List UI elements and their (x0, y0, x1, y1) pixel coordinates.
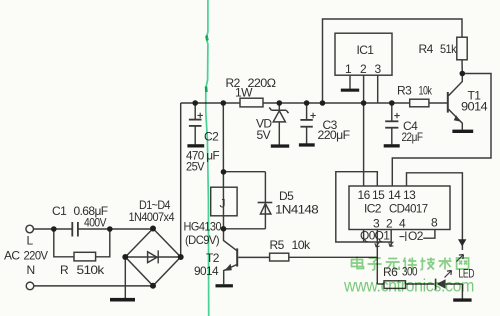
svg-text:3: 3 (375, 62, 382, 76)
svg-text:5V: 5V (257, 128, 271, 142)
svg-text:R3: R3 (397, 84, 412, 98)
svg-text:R5: R5 (270, 238, 285, 252)
IC2 pin4 stub (390, 230, 392, 247)
svg-text:Q0: Q0 (360, 229, 376, 243)
ground bridge (110, 298, 135, 302)
junction bridge top vertex (150, 226, 156, 232)
capacitor C1 (72, 222, 78, 237)
svg-text:1N4007x4: 1N4007x4 (129, 210, 175, 224)
svg-text:13: 13 (403, 188, 416, 202)
svg-text:9014: 9014 (461, 100, 488, 114)
svg-text:HG4130: HG4130 (184, 220, 222, 234)
wire J bottom to D5 (224, 228, 266, 230)
junction relay J top (221, 169, 227, 175)
ground VD (271, 144, 289, 147)
terminal L (26, 225, 34, 233)
wire R left leg (54, 229, 74, 257)
svg-text:1N4148: 1N4148 (275, 203, 319, 217)
capacitor C4 (391, 103, 393, 121)
ground C2 (187, 144, 204, 147)
svg-text:220V: 220V (24, 249, 49, 263)
ground IC1 pin1 (341, 89, 359, 92)
bridge rectifier D1~D4 diamond (125, 229, 180, 286)
junction rail C2 (192, 100, 198, 106)
junction rail C3 (304, 100, 310, 106)
junction bridge left vertex (122, 254, 128, 260)
bridge inner diode (148, 252, 157, 263)
svg-text:15: 15 (372, 188, 385, 202)
IC2 pin13 wire to LED (407, 173, 463, 250)
wire J top to D5 (224, 171, 266, 173)
LED wire down to ground (461, 284, 463, 299)
O2 tick marks (400, 232, 406, 242)
svg-text:J: J (220, 197, 226, 211)
junction C1 left (51, 226, 57, 232)
junction rail C4 / R3 (389, 100, 395, 106)
wire N to bridge bottom (34, 285, 153, 287)
svg-text:O2: O2 (408, 229, 424, 243)
svg-text:AC: AC (4, 249, 20, 263)
svg-text:8: 8 (431, 216, 438, 230)
wire R4 to T1 collector node (461, 60, 463, 74)
svg-text:220μF: 220μF (318, 128, 350, 142)
plus sign C3 (310, 113, 315, 118)
IC2 box (349, 186, 450, 230)
resistor R6 (384, 281, 406, 289)
svg-text:510k: 510k (77, 263, 106, 277)
LED arrow blob (458, 239, 466, 246)
resistor R2 (240, 98, 263, 107)
svg-text:IC1: IC1 (357, 43, 375, 57)
resistor R4 (457, 37, 467, 60)
junction rail R4 riser (320, 100, 326, 106)
wire bridge left to ground (124, 257, 126, 299)
transistor T1 (447, 92, 449, 113)
resistor R5 (270, 253, 289, 261)
wire C1 to bridge top (78, 228, 153, 230)
junction bridge right vertex (178, 254, 184, 260)
resistor R3 (410, 99, 429, 107)
svg-text:D5: D5 (279, 189, 294, 203)
ground T1 emitter (452, 130, 473, 133)
svg-text:IC2: IC2 (364, 202, 382, 216)
IC1 pin2 wire (363, 75, 365, 103)
arrow marks below pins (375, 242, 380, 247)
IC1 box (335, 33, 392, 75)
transistor T2 (236, 248, 238, 266)
IC2 pin3 stub (363, 230, 365, 243)
wire pin2 down to R6 (377, 283, 384, 285)
plus sign C4 (394, 113, 399, 118)
svg-text:2: 2 (360, 62, 367, 76)
junction bridge bottom vertex (150, 283, 156, 289)
svg-text:Q1: Q1 (375, 229, 391, 243)
svg-text:1: 1 (345, 62, 352, 76)
IC2 pin2 wire down (376, 230, 378, 285)
svg-text:51k: 51k (440, 42, 457, 56)
wire T1 node right and down to pin14 (392, 74, 491, 187)
svg-text:9014: 9014 (194, 264, 219, 278)
junction rail relay J (221, 100, 227, 106)
LED emission arrows (457, 255, 464, 262)
svg-text:R4: R4 (419, 42, 434, 56)
plus sign C2 (198, 113, 203, 118)
IC1 pin1 to ground (349, 75, 351, 89)
green screenshot line (206, 0, 209, 316)
junction rail VD (277, 100, 283, 106)
svg-text:10k: 10k (419, 84, 433, 98)
svg-text:R: R (60, 263, 69, 277)
svg-text:25V: 25V (186, 160, 205, 174)
svg-text:(DC9V): (DC9V) (185, 233, 220, 247)
ground C4 (384, 144, 400, 147)
junction C1 right (107, 226, 113, 232)
svg-text:C1: C1 (52, 204, 67, 218)
svg-text:10k: 10k (292, 238, 312, 252)
wire bridge right up to rail (180, 103, 182, 257)
junction relay J bottom (221, 226, 227, 232)
relay box J (211, 187, 237, 216)
svg-text:CD4017: CD4017 (389, 202, 428, 216)
capacitor C3 (306, 103, 308, 120)
resistor R 510k (74, 252, 96, 261)
wire rail to IC2 pin16 (363, 103, 365, 186)
terminal N (26, 282, 34, 290)
wire R right leg (96, 229, 110, 257)
wire T2 base to R5 (238, 256, 269, 258)
bridge inner diode wire (126, 256, 180, 258)
svg-text:www.cntronics.com: www.cntronics.com (343, 276, 474, 296)
svg-text:14: 14 (388, 188, 401, 202)
junction rail IC1 pin2 / IC2 pin16 (361, 100, 367, 106)
svg-text:N: N (27, 263, 35, 277)
main +V rail (181, 102, 240, 104)
relay coil J wire (222, 103, 224, 229)
ground LED (453, 298, 471, 301)
svg-text:16: 16 (358, 188, 371, 202)
svg-text:L: L (27, 234, 34, 248)
IC2 pin15 loop (336, 172, 391, 242)
diode D5 1N4148 (264, 172, 266, 229)
watermark chinese (352, 257, 469, 271)
LED diode on wire (435, 279, 437, 290)
junction T1 collector node (460, 71, 466, 77)
capacitor C2 (194, 103, 196, 119)
ground T2 emitter (216, 284, 233, 287)
wire rail up and over to R4 (323, 19, 463, 103)
svg-text:22μF: 22μF (402, 130, 423, 144)
svg-text:1W: 1W (235, 85, 253, 99)
svg-text:4: 4 (399, 217, 406, 231)
ground C3 (299, 143, 315, 146)
wire R5 to pin2 (289, 256, 378, 258)
zener VD (278, 103, 280, 110)
wire L terminal to C1 (34, 228, 72, 230)
svg-text:400V: 400V (84, 216, 106, 230)
wire R6 to LED (406, 283, 435, 285)
IC2 pin8 wire (423, 230, 435, 239)
IC1 pin3 wire (377, 75, 379, 103)
